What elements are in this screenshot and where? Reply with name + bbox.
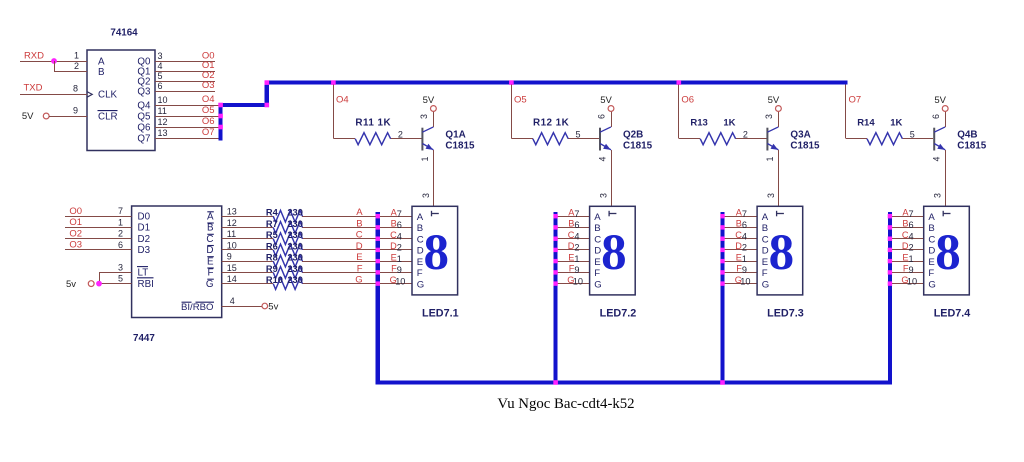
svg-text:D1: D1 (138, 223, 151, 234)
svg-text:D: D (206, 245, 213, 256)
svg-text:O0: O0 (69, 206, 82, 217)
svg-text:R10: R10 (266, 275, 283, 285)
svg-text:C: C (356, 230, 363, 241)
svg-text:BI/RBO: BI/RBO (181, 302, 214, 313)
svg-text:10: 10 (740, 276, 750, 286)
svg-text:5V: 5V (423, 95, 435, 106)
svg-text:O7: O7 (849, 94, 862, 105)
svg-text:F: F (594, 268, 600, 279)
svg-text:Q2B: Q2B (623, 130, 643, 141)
svg-text:D: D (356, 241, 363, 252)
svg-text:9: 9 (397, 265, 402, 275)
svg-text:Q3A: Q3A (790, 130, 810, 141)
svg-text:3: 3 (158, 51, 163, 61)
svg-text:Q4B: Q4B (957, 130, 977, 141)
svg-text:4: 4 (909, 232, 914, 242)
svg-text:230: 230 (287, 241, 303, 251)
svg-text:B: B (98, 67, 105, 78)
svg-text:C1815: C1815 (445, 141, 475, 152)
svg-text:2: 2 (118, 229, 123, 239)
svg-text:F: F (357, 263, 363, 274)
svg-text:12: 12 (227, 218, 237, 228)
svg-text:3: 3 (764, 114, 774, 119)
svg-text:2: 2 (574, 243, 579, 253)
svg-text:R12 1K: R12 1K (533, 118, 570, 129)
svg-text:6: 6 (597, 114, 607, 119)
svg-text:2: 2 (397, 243, 402, 253)
svg-text:R11 1K: R11 1K (355, 118, 391, 129)
svg-text:D0: D0 (138, 212, 151, 223)
svg-text:4: 4 (598, 156, 608, 161)
svg-text:6: 6 (118, 240, 123, 250)
svg-text:E: E (762, 257, 768, 268)
svg-text:C1815: C1815 (790, 141, 820, 152)
svg-text:3: 3 (933, 193, 943, 198)
svg-text:O6: O6 (681, 94, 694, 105)
svg-text:R6: R6 (266, 241, 278, 251)
svg-text:F: F (762, 268, 768, 279)
svg-text:O1: O1 (69, 217, 82, 228)
svg-text:RXD: RXD (24, 50, 44, 61)
svg-text:D2: D2 (138, 234, 151, 245)
svg-text:Q6: Q6 (137, 122, 151, 133)
svg-text:O2: O2 (69, 228, 82, 239)
svg-text:2: 2 (742, 243, 747, 253)
svg-text:CLR: CLR (98, 112, 118, 123)
svg-text:A: A (762, 212, 769, 223)
svg-text:6: 6 (574, 220, 579, 230)
svg-text:B: B (417, 223, 423, 234)
svg-text:O7: O7 (202, 127, 215, 138)
svg-text:8: 8 (424, 225, 450, 281)
svg-text:7: 7 (118, 206, 123, 216)
svg-text:6: 6 (397, 220, 402, 230)
svg-text:Q7: Q7 (137, 133, 150, 144)
svg-text:O3: O3 (202, 80, 215, 91)
svg-text:1: 1 (742, 254, 747, 264)
svg-text:5v: 5v (66, 279, 76, 290)
svg-text:230: 230 (287, 253, 303, 263)
svg-text:230: 230 (287, 208, 303, 218)
svg-text:R5: R5 (266, 230, 278, 240)
svg-text:5v: 5v (268, 302, 278, 313)
svg-text:A: A (207, 212, 214, 223)
svg-text:3: 3 (421, 193, 431, 198)
svg-text:15: 15 (227, 263, 237, 273)
svg-text:6: 6 (931, 114, 941, 119)
svg-text:4: 4 (742, 232, 747, 242)
svg-text:5V: 5V (768, 95, 780, 106)
svg-text:5V: 5V (22, 111, 34, 122)
svg-text:R8: R8 (266, 253, 278, 263)
svg-text:12: 12 (158, 117, 168, 127)
svg-text:14: 14 (227, 274, 237, 284)
svg-text:B: B (356, 218, 362, 229)
svg-text:8: 8 (73, 84, 78, 94)
svg-text:F: F (208, 268, 214, 279)
svg-text:O4: O4 (336, 94, 349, 105)
svg-text:4: 4 (158, 61, 163, 71)
svg-text:3: 3 (766, 193, 776, 198)
svg-text:O5: O5 (514, 94, 527, 105)
svg-text:B: B (928, 223, 934, 234)
svg-text:5V: 5V (600, 95, 612, 106)
svg-text:LED7.2: LED7.2 (600, 308, 637, 320)
svg-text:LED7.4: LED7.4 (934, 308, 971, 320)
svg-text:C: C (206, 234, 213, 245)
svg-text:9: 9 (742, 265, 747, 275)
svg-text:5: 5 (158, 71, 163, 81)
svg-text:LED7.3: LED7.3 (767, 308, 804, 320)
svg-text:13: 13 (158, 128, 168, 138)
svg-text:A: A (417, 212, 424, 223)
svg-text:LT: LT (138, 268, 149, 279)
svg-text:E: E (594, 257, 600, 268)
svg-text:6: 6 (742, 220, 747, 230)
svg-text:B: B (762, 223, 768, 234)
svg-text:C1815: C1815 (957, 141, 987, 152)
svg-text:9: 9 (909, 265, 914, 275)
svg-text:G: G (206, 279, 214, 290)
svg-text:1K: 1K (723, 118, 735, 129)
svg-text:E: E (928, 257, 934, 268)
svg-text:G: G (355, 275, 362, 286)
svg-text:2: 2 (743, 130, 748, 140)
svg-text:7: 7 (574, 209, 579, 219)
svg-text:7: 7 (909, 209, 914, 219)
svg-text:4: 4 (230, 296, 235, 306)
svg-text:7447: 7447 (133, 333, 155, 344)
svg-text:3: 3 (118, 262, 123, 272)
svg-text:230: 230 (287, 264, 303, 274)
svg-text:Q5: Q5 (137, 111, 151, 122)
svg-text:C1815: C1815 (623, 141, 653, 152)
svg-text:A: A (356, 207, 363, 218)
svg-text:B: B (207, 223, 214, 234)
svg-text:4: 4 (397, 232, 402, 242)
svg-text:1: 1 (118, 217, 123, 227)
svg-text:O6: O6 (202, 116, 215, 127)
svg-text:1: 1 (765, 156, 775, 161)
svg-text:4: 4 (574, 232, 579, 242)
svg-text:E: E (207, 256, 214, 267)
svg-text:1: 1 (74, 51, 79, 61)
svg-text:Q3: Q3 (137, 86, 151, 97)
svg-text:10: 10 (573, 276, 583, 286)
svg-text:R7: R7 (266, 219, 278, 229)
svg-text:9: 9 (73, 106, 78, 116)
svg-text:10: 10 (907, 276, 917, 286)
svg-text:7: 7 (742, 209, 747, 219)
svg-text:A: A (594, 212, 601, 223)
svg-text:RBI: RBI (138, 279, 154, 290)
svg-text:LED7.1: LED7.1 (422, 308, 459, 320)
svg-text:10: 10 (227, 240, 237, 250)
svg-text:1: 1 (574, 254, 579, 264)
svg-text:11: 11 (158, 106, 167, 116)
svg-text:5: 5 (576, 130, 581, 140)
svg-text:A: A (98, 56, 105, 67)
svg-text:1: 1 (397, 254, 402, 264)
svg-text:D3: D3 (138, 245, 151, 256)
svg-text:5V: 5V (934, 95, 946, 106)
svg-text:3: 3 (419, 114, 429, 119)
svg-text:8: 8 (769, 225, 795, 281)
svg-text:E: E (417, 257, 423, 268)
svg-text:R4: R4 (266, 208, 279, 218)
svg-text:6: 6 (158, 81, 163, 91)
svg-text:R9: R9 (266, 264, 278, 274)
svg-text:9: 9 (574, 265, 579, 275)
svg-text:E: E (356, 252, 362, 263)
svg-text:Vu Ngoc Bac-cdt4-k52: Vu Ngoc Bac-cdt4-k52 (497, 396, 634, 412)
svg-text:F: F (417, 268, 423, 279)
svg-text:230: 230 (287, 219, 303, 229)
svg-text:1K: 1K (890, 118, 902, 129)
svg-text:8: 8 (935, 225, 961, 281)
svg-text:2: 2 (74, 61, 79, 71)
svg-text:O3: O3 (69, 240, 82, 251)
svg-text:A: A (928, 212, 935, 223)
svg-text:8: 8 (601, 225, 627, 281)
svg-text:1: 1 (420, 156, 430, 161)
svg-text:1: 1 (909, 254, 914, 264)
svg-text:6: 6 (909, 220, 914, 230)
svg-text:Q1A: Q1A (445, 130, 465, 141)
svg-text:B: B (594, 223, 600, 234)
svg-text:230: 230 (287, 230, 303, 240)
svg-text:TXD: TXD (24, 82, 43, 93)
svg-text:11: 11 (227, 229, 236, 239)
svg-text:9: 9 (227, 252, 232, 262)
svg-text:4: 4 (932, 156, 942, 161)
svg-text:13: 13 (227, 207, 237, 217)
svg-text:7: 7 (397, 209, 402, 219)
svg-text:2: 2 (909, 243, 914, 253)
svg-text:Q4: Q4 (137, 100, 151, 111)
svg-text:O4: O4 (202, 94, 215, 105)
svg-text:F: F (928, 268, 934, 279)
svg-text:5: 5 (910, 130, 915, 140)
svg-text:10: 10 (158, 95, 168, 105)
svg-text:5: 5 (118, 274, 123, 284)
svg-text:R13: R13 (690, 118, 707, 129)
svg-text:CLK: CLK (98, 90, 118, 101)
svg-text:74164: 74164 (110, 28, 138, 39)
svg-text:R14: R14 (857, 118, 875, 129)
svg-text:O5: O5 (202, 105, 215, 116)
svg-text:10: 10 (395, 276, 405, 286)
svg-text:3: 3 (598, 193, 608, 198)
svg-text:2: 2 (398, 130, 403, 140)
svg-text:230: 230 (287, 275, 303, 285)
